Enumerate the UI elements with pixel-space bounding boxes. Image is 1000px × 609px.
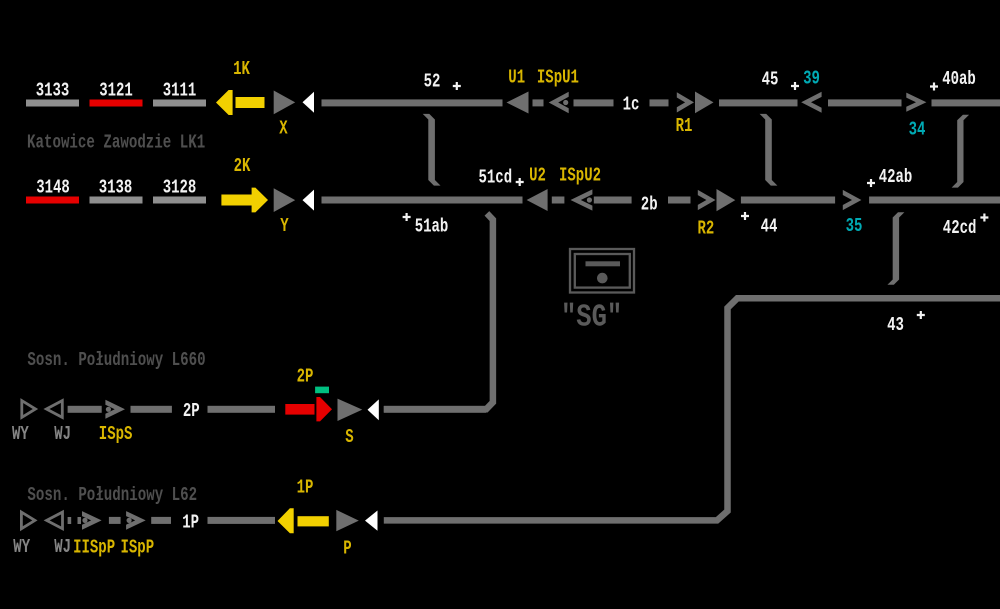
svg-text:45: 45 xyxy=(762,70,779,92)
signal 1K arrow xyxy=(216,90,265,115)
svg-text:51ab: 51ab xyxy=(415,217,449,239)
crossover 51 bracket xyxy=(423,114,441,186)
svg-text:35: 35 xyxy=(846,216,863,238)
svg-text:WY: WY xyxy=(12,424,29,446)
track dot row4 a xyxy=(68,517,72,524)
track row1 seg 45 xyxy=(719,99,798,106)
svg-text:"SG": "SG" xyxy=(561,299,622,335)
track row2 seg 2b-left xyxy=(594,197,632,204)
track row3 seg2 xyxy=(131,406,172,413)
plus node 52 xyxy=(453,82,461,90)
turnout 39 indicator xyxy=(801,92,821,113)
track row1 seg 1c-left xyxy=(574,99,614,106)
svg-text:U1: U1 xyxy=(508,68,525,90)
svg-text:3121: 3121 xyxy=(99,81,133,103)
track dash row4 b xyxy=(151,517,171,524)
track row2 seg 42 xyxy=(869,197,1000,204)
track section 3121 occupied xyxy=(90,100,143,107)
plus node 44 xyxy=(741,212,749,220)
signal U2 head xyxy=(527,189,548,211)
svg-text:WY: WY xyxy=(13,537,30,559)
signal Y marker white xyxy=(303,190,315,211)
svg-text:51cd: 51cd xyxy=(478,168,512,190)
track section 3148 occupied xyxy=(26,197,79,204)
svg-text:WJ: WJ xyxy=(54,424,71,446)
svg-text:42ab: 42ab xyxy=(879,167,913,189)
svg-text:2P: 2P xyxy=(183,401,200,423)
signal ISpS symbol xyxy=(105,400,125,419)
marker WY row3 xyxy=(22,401,36,418)
signal P head xyxy=(336,510,359,531)
svg-text:Sosn. Południowy L62: Sosn. Południowy L62 xyxy=(27,485,197,507)
svg-text:3128: 3128 xyxy=(163,178,197,200)
svg-text:3138: 3138 xyxy=(99,178,133,200)
signal R2 head xyxy=(717,189,736,211)
crossover 40-42 bracket xyxy=(952,115,970,188)
svg-text:U2: U2 xyxy=(529,166,546,188)
signal IISpP symbol xyxy=(82,511,102,530)
signal P marker white xyxy=(365,511,378,531)
signal ISpU1 symbol xyxy=(549,92,569,114)
track section 3138 xyxy=(90,197,143,204)
track row2 seg 44 xyxy=(741,197,835,204)
signal 1P arrow xyxy=(278,508,329,533)
svg-text:2b: 2b xyxy=(641,195,658,217)
marker WJ row3 xyxy=(46,401,62,418)
svg-text:3133: 3133 xyxy=(36,81,70,103)
track connector 43-to-P xyxy=(384,298,1000,520)
turnout 34 indicator xyxy=(906,93,926,112)
svg-text:2P: 2P xyxy=(297,367,314,389)
track dash U2 xyxy=(552,197,565,204)
svg-text:34: 34 xyxy=(909,120,926,142)
svg-text:40ab: 40ab xyxy=(942,69,976,91)
svg-text:1P: 1P xyxy=(297,478,314,500)
svg-text:1K: 1K xyxy=(233,59,251,81)
svg-text:44: 44 xyxy=(761,217,778,239)
signal 2K arrow xyxy=(221,188,268,213)
svg-text:52: 52 xyxy=(424,72,441,94)
plus node 42cd xyxy=(980,214,988,222)
signal X marker white xyxy=(303,92,315,113)
marker WJ row4 xyxy=(47,512,63,529)
svg-text:ISpS: ISpS xyxy=(99,424,133,446)
svg-text:S: S xyxy=(345,427,353,449)
svg-text:3148: 3148 xyxy=(36,178,70,200)
svg-text:ISpU2: ISpU2 xyxy=(559,166,601,188)
track row1 main xyxy=(322,99,503,106)
track row3 seg4 xyxy=(384,406,486,413)
svg-text:R1: R1 xyxy=(676,116,693,138)
track row1 seg 1c-right xyxy=(650,99,669,106)
plus node 51ab xyxy=(403,213,411,221)
svg-text:42cd: 42cd xyxy=(943,218,977,240)
svg-text:R2: R2 xyxy=(697,219,714,241)
svg-text:IISpP: IISpP xyxy=(73,538,115,560)
svg-text:P: P xyxy=(343,538,351,560)
plus node 42ab xyxy=(867,179,875,187)
track row3 seg1 xyxy=(68,406,102,413)
plus node 51cd xyxy=(516,178,524,186)
turnout 35 indicator xyxy=(843,190,862,210)
svg-text:Katowice Zawodzie LK1: Katowice Zawodzie LK1 xyxy=(27,132,205,154)
track section 3133 xyxy=(26,100,79,107)
track section 3111 xyxy=(153,100,206,107)
track row2 seg 2b-right xyxy=(668,197,691,204)
svg-text:2K: 2K xyxy=(234,156,252,178)
track row4 seg1 xyxy=(208,517,276,524)
crossover 42-43 bracket xyxy=(887,212,904,285)
signal 2P arrow red xyxy=(285,397,332,421)
svg-text:1c: 1c xyxy=(623,95,640,117)
marker WY row4 xyxy=(21,512,35,529)
signal R1 head xyxy=(695,92,714,114)
signal X head xyxy=(274,91,296,115)
signal U1 head xyxy=(507,92,529,114)
track row1 seg 39-34 xyxy=(828,99,902,106)
plus node 45 xyxy=(791,82,799,90)
track dash row4 a xyxy=(109,517,121,524)
crossover 44-45 bracket xyxy=(760,114,778,186)
plus node 40ab xyxy=(930,83,938,91)
signal R1 chevron xyxy=(677,92,694,112)
plus node 43 xyxy=(917,311,925,319)
svg-text:ISpU1: ISpU1 xyxy=(537,68,579,90)
svg-text:43: 43 xyxy=(887,315,904,337)
track row3 seg3 xyxy=(208,406,276,413)
svg-text:1P: 1P xyxy=(182,513,199,535)
signal box SG symbol xyxy=(570,249,634,293)
svg-text:39: 39 xyxy=(803,69,820,91)
track row1 seg 40ab xyxy=(932,99,1000,106)
track connector row2-to-S xyxy=(384,213,493,409)
svg-text:Sosn. Południowy L660: Sosn. Południowy L660 xyxy=(27,350,205,372)
track dot row4 b xyxy=(78,517,82,524)
signal S head xyxy=(338,399,363,421)
svg-text:WJ: WJ xyxy=(54,537,71,559)
svg-text:Y: Y xyxy=(280,216,288,238)
signal Y head xyxy=(274,188,296,212)
signal ISpU2 symbol xyxy=(571,189,593,210)
track dash U1 xyxy=(533,99,544,106)
svg-text:X: X xyxy=(279,119,288,141)
signal ISpP symbol xyxy=(126,511,146,530)
track row2 main xyxy=(322,197,523,204)
svg-text:3111: 3111 xyxy=(163,81,197,103)
signal 2P repeater green xyxy=(315,387,329,394)
svg-text:ISpP: ISpP xyxy=(120,538,154,560)
signal S marker white xyxy=(368,399,379,420)
signal R2 chevron xyxy=(698,190,716,210)
track section 3128 xyxy=(153,197,206,204)
